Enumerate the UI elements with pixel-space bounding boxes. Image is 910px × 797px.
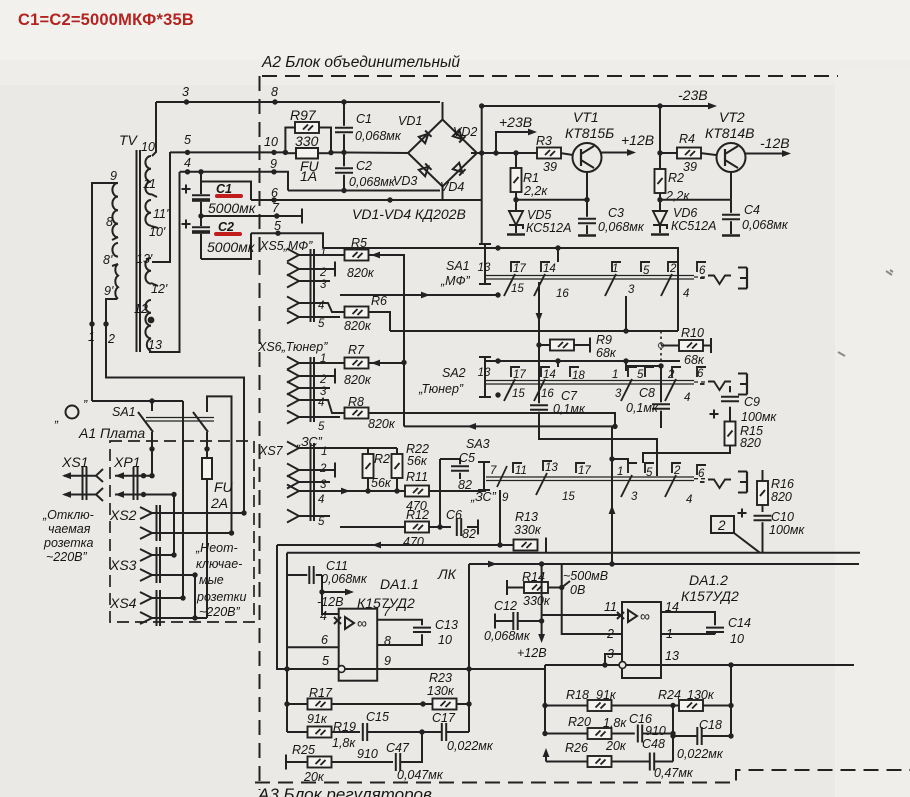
wire R8 output rail — [368, 413, 615, 426]
wire contact14 riser to top rail — [557, 248, 559, 262]
wire riser x195 — [194, 575, 196, 618]
svg-text:14: 14 — [543, 263, 556, 275]
contact 17 — [576, 463, 585, 473]
svg-text:17: 17 — [513, 369, 526, 381]
svg-text:-23В: -23В — [678, 87, 708, 103]
wire riser x174 from XP1 — [173, 495, 175, 556]
svg-text:ЛК: ЛК — [437, 566, 457, 582]
switch SA1 left pole bracket 13 — [479, 244, 498, 284]
node 4 — [185, 169, 190, 174]
svg-text:820к: 820к — [368, 417, 396, 431]
resistor R13 330k — [277, 544, 514, 546]
svg-text:39: 39 — [543, 160, 557, 174]
pin 1 — [287, 442, 299, 455]
svg-text:R4: R4 — [679, 132, 695, 146]
svg-text:100мк: 100мк — [769, 523, 805, 537]
svg-text:130к: 130к — [427, 684, 455, 698]
svg-text:0,068мк: 0,068мк — [484, 629, 531, 643]
pin 5 — [287, 311, 299, 324]
wire +23V branch — [496, 132, 532, 153]
svg-text:„ЗС”: „ЗС” — [470, 490, 497, 504]
svg-text:1: 1 — [612, 263, 618, 275]
svg-text:91к: 91к — [596, 688, 617, 702]
resistor R23 130k — [433, 699, 457, 710]
svg-text:13: 13 — [478, 262, 491, 274]
wire pin3 — [605, 654, 622, 665]
contact 13/15 — [536, 461, 552, 495]
resistor R97 330 — [285, 128, 409, 154]
jack socket row2 — [700, 374, 747, 395]
svg-text:VD1-VD4 КД202В: VD1-VD4 КД202В — [352, 206, 466, 222]
svg-text:20к: 20к — [605, 739, 627, 753]
contact 5 — [641, 262, 650, 272]
svg-text:ХР1: ХР1 — [113, 454, 140, 470]
contact 1/3 — [621, 463, 637, 497]
contact 14/16 — [534, 262, 550, 296]
svg-text:4: 4 — [318, 300, 324, 312]
svg-text:1А: 1А — [300, 168, 317, 184]
svg-text:R97: R97 — [290, 107, 317, 123]
svg-text:11: 11 — [143, 177, 156, 191]
svg-text:820: 820 — [740, 436, 761, 450]
pin 2 — [287, 370, 299, 383]
svg-text:4: 4 — [184, 156, 191, 170]
svg-text:0,068мк: 0,068мк — [355, 129, 402, 143]
primary winding section 9-8 — [112, 183, 118, 237]
contact 2/4 — [665, 367, 681, 401]
resistor R19 1.8k — [287, 731, 360, 733]
svg-text:16: 16 — [541, 388, 554, 400]
svg-text:18: 18 — [572, 370, 585, 382]
wire tap10 up to rail 3 — [152, 102, 156, 156]
resistor R16 820 — [762, 470, 764, 512]
wire riser x469 (LK to C17) — [468, 564, 470, 732]
transistor VT1 KT815B — [573, 143, 631, 200]
capacitor C6 82 — [457, 518, 461, 536]
primary winding section 8'-9' — [115, 264, 118, 299]
svg-text:С5: С5 — [459, 451, 475, 465]
pin 3 — [287, 476, 299, 489]
svg-text:39: 39 — [683, 160, 697, 174]
svg-text:17: 17 — [513, 263, 526, 275]
contact 17/15 — [504, 262, 520, 296]
svg-text:SA1: SA1 — [446, 259, 470, 273]
svg-text:розетки: розетки — [196, 590, 247, 604]
capacitor C8 0.1mk — [652, 404, 670, 408]
wire riser x185 — [182, 401, 184, 598]
wire contact3 riser down — [625, 296, 627, 331]
switch SA2 left pole bracket 13 — [479, 357, 498, 397]
contact 11 — [513, 463, 522, 473]
wire R15 down and left — [643, 446, 730, 464]
svg-text:SA3: SA3 — [466, 437, 490, 451]
resistor R21 56k — [367, 448, 369, 491]
svg-text:С1=С2=5000МКФ*35В: С1=С2=5000МКФ*35В — [18, 11, 194, 29]
svg-text:R1: R1 — [523, 171, 539, 185]
node 6 — [271, 197, 276, 202]
svg-text:13: 13 — [545, 462, 558, 474]
svg-text:„МФ”: „МФ” — [440, 274, 471, 288]
arrow -23V — [708, 103, 717, 110]
arrow +23V — [528, 129, 537, 136]
svg-text:ХS4: ХS4 — [109, 595, 137, 611]
wire SA1-SA2 riser with down arrow — [538, 282, 540, 345]
resistor R10 68k — [661, 345, 710, 347]
svg-text:А3 Блок регуляторов: А3 Блок регуляторов — [257, 785, 432, 797]
wire LK rail y564 — [469, 563, 859, 565]
capacitor C18 0.022mk — [673, 735, 731, 737]
wire pin6 — [287, 646, 339, 648]
arrow up on lk riser — [609, 505, 616, 514]
callout box 2 — [711, 516, 760, 553]
capacitor C11 0.068mk — [287, 575, 339, 614]
svg-text:100мк: 100мк — [741, 410, 777, 424]
svg-text:R26: R26 — [565, 741, 588, 755]
wire feedback top rail y553 — [287, 552, 860, 554]
transformer TV label — [119, 132, 139, 148]
svg-text:R16: R16 — [771, 477, 794, 491]
svg-text:5: 5 — [322, 654, 329, 668]
wire rail y172 (pin 4 / 9) — [180, 172, 289, 191]
svg-text:С47: С47 — [386, 741, 410, 755]
svg-text:С1: С1 — [216, 182, 232, 196]
wire riser x731 — [730, 665, 732, 736]
svg-text:К157УД2: К157УД2 — [681, 588, 739, 604]
transistor VT2 KT814V — [660, 143, 785, 200]
stray scan marks right edge — [838, 270, 893, 356]
arrow -12V — [322, 591, 348, 593]
svg-text:5: 5 — [274, 219, 281, 233]
svg-text:-12В: -12В — [317, 595, 343, 609]
svg-text:4: 4 — [684, 392, 690, 404]
contact lever 7-9 — [497, 466, 507, 487]
svg-text:330: 330 — [295, 133, 319, 149]
svg-text:820к: 820к — [344, 319, 372, 333]
contact 1/3 — [605, 262, 621, 296]
wire SA1 input with arrow — [340, 294, 498, 296]
svg-text:„Тюнер”: „Тюнер” — [418, 382, 464, 396]
svg-text:4: 4 — [683, 288, 689, 300]
svg-text:мые: мые — [199, 573, 224, 587]
svg-text:56к: 56к — [407, 454, 428, 468]
wire rail y102 (pin 3 / 8) — [156, 101, 440, 103]
svg-text:0,1мк: 0,1мк — [626, 401, 659, 415]
wire 9 riser to R13 rail — [499, 490, 501, 545]
wire SA2 top rail — [498, 360, 680, 362]
capacitor C10 100mk — [738, 509, 747, 518]
svg-text:С4: С4 — [744, 203, 760, 217]
svg-text:11: 11 — [515, 465, 527, 477]
svg-text:7: 7 — [383, 605, 391, 619]
svg-text:ключае-: ключае- — [196, 557, 242, 571]
power indicator lamp — [66, 406, 79, 419]
svg-text:R18: R18 — [566, 688, 589, 702]
svg-text:68к: 68к — [684, 353, 705, 367]
svg-text:15: 15 — [511, 283, 524, 295]
svg-text:17: 17 — [578, 465, 591, 477]
capacitor C12 0.068mk — [494, 614, 496, 629]
capacitor C17 0.022mk — [442, 723, 446, 741]
resistor R9 68k — [539, 344, 589, 346]
svg-text:С11: С11 — [326, 559, 348, 573]
svg-text:С48: С48 — [642, 737, 665, 751]
svg-text:С8: С8 — [639, 386, 655, 400]
pin 5 — [287, 411, 299, 424]
svg-text:чаемая: чаемая — [48, 522, 91, 536]
svg-text:R20: R20 — [568, 715, 591, 729]
resistor R1 2.2k — [515, 153, 517, 200]
svg-text:2А: 2А — [210, 495, 228, 511]
winding tap stubs primary — [112, 237, 118, 240]
pin 1 — [287, 357, 299, 370]
contact 1/3 — [621, 367, 637, 401]
svg-text:∞: ∞ — [640, 608, 650, 624]
winding tap stubs secondary — [151, 194, 157, 197]
svg-text:„ЗС”: „ЗС” — [296, 435, 323, 449]
svg-text:3: 3 — [615, 388, 622, 400]
svg-text:R23: R23 — [429, 671, 452, 685]
svg-text:6: 6 — [698, 468, 705, 480]
svg-text:DA1.1: DA1.1 — [380, 576, 419, 592]
svg-text:+12В: +12В — [517, 646, 547, 660]
svg-text:0,068мк: 0,068мк — [598, 220, 645, 234]
pin 3 — [287, 275, 299, 288]
pin 5 — [287, 510, 299, 523]
svg-text:С2: С2 — [356, 159, 372, 173]
svg-text:11': 11' — [153, 207, 169, 221]
fuse FU 1A — [285, 148, 331, 159]
svg-text:С3: С3 — [608, 206, 624, 220]
contact 2/4 — [665, 463, 681, 497]
primary winding section 8-8' — [112, 243, 118, 257]
secondary winding section 10-11 — [145, 156, 151, 194]
svg-text:ХS2: ХS2 — [109, 507, 137, 523]
wire rail y200 (pin 6 to -23V riser) — [251, 199, 482, 201]
resistor R25 20k — [285, 755, 287, 770]
node 8 — [272, 99, 277, 104]
svg-text:С2: С2 — [218, 220, 234, 234]
svg-text:5: 5 — [318, 516, 325, 528]
svg-text:82: 82 — [462, 527, 476, 541]
wire mains from winding to SA1 — [92, 400, 183, 402]
resistor R18 91k — [545, 705, 680, 707]
svg-text:12': 12' — [151, 282, 168, 296]
contact 5 — [645, 367, 654, 377]
svg-text:3: 3 — [631, 491, 638, 503]
svg-text:С18: С18 — [699, 718, 722, 732]
resistor R11 470 — [405, 486, 429, 497]
fuse FU 2A — [202, 458, 212, 618]
svg-text:„Отклю-: „Отклю- — [42, 508, 94, 522]
svg-text:SA2: SA2 — [442, 366, 466, 380]
op-amp DA1.2 body — [617, 602, 661, 678]
svg-text:КТ814В: КТ814В — [705, 125, 755, 141]
wire tap9' to terminal 2 — [106, 299, 244, 513]
wire pin2 — [562, 588, 622, 635]
svg-text:12: 12 — [134, 302, 148, 316]
svg-text:10: 10 — [264, 135, 278, 149]
zener VD5 KS512A — [515, 200, 517, 233]
arrow +12V out — [627, 149, 636, 156]
capacitor C9 100mk — [729, 386, 731, 422]
svg-text:6: 6 — [699, 265, 706, 277]
svg-text:11: 11 — [604, 600, 617, 614]
jack socket row3 — [700, 472, 747, 493]
capacitor C1 5000mk — [192, 172, 251, 216]
svg-text:R24: R24 — [658, 688, 681, 702]
switch SA2 mechanism bars — [486, 381, 707, 385]
capacitor C5 82 — [440, 459, 460, 527]
svg-text:8': 8' — [103, 253, 113, 267]
svg-text:0,068мк: 0,068мк — [349, 175, 396, 189]
wire tap9 to terminal 1 — [92, 183, 118, 401]
svg-text:розетка: розетка — [43, 536, 94, 550]
transformer core — [136, 150, 138, 352]
svg-text:2,2к: 2,2к — [665, 189, 690, 203]
svg-text:13': 13' — [136, 252, 153, 266]
svg-text:С15: С15 — [366, 710, 389, 724]
node 10 — [271, 150, 276, 155]
node terminal 2 — [103, 321, 108, 326]
svg-text:56к: 56к — [371, 476, 392, 490]
secondary winding section 13'-12' — [145, 258, 151, 284]
svg-text:TV: TV — [119, 132, 139, 148]
svg-text:С17: С17 — [432, 711, 456, 725]
svg-text:6: 6 — [321, 633, 328, 647]
svg-text:4: 4 — [686, 494, 692, 506]
svg-text:VD1: VD1 — [398, 114, 422, 128]
op-amp DA1.1 body — [334, 609, 377, 681]
svg-text:1: 1 — [612, 369, 618, 381]
svg-text:С10: С10 — [771, 510, 794, 524]
wire VT2 branch riser — [659, 106, 661, 200]
svg-text:820: 820 — [771, 490, 792, 504]
zener VD6 KS512A — [659, 200, 661, 233]
svg-text:0,022мк: 0,022мк — [447, 739, 494, 753]
wire riser x661 to C8 — [626, 366, 661, 402]
wire contact1 riser — [625, 361, 627, 371]
svg-text:3: 3 — [182, 85, 189, 99]
svg-text:470: 470 — [403, 535, 424, 549]
contact 2/4 — [661, 262, 677, 296]
wire pin5 rail y669 — [277, 668, 545, 670]
svg-text:R6: R6 — [371, 294, 387, 308]
wire rail y190 (bridge bottom left) — [288, 190, 440, 192]
svg-text:С12: С12 — [494, 599, 517, 613]
svg-text:R19: R19 — [333, 720, 356, 734]
wire riser x673 — [672, 706, 674, 762]
svg-text:ХS7: ХS7 — [258, 444, 284, 458]
wire SA3 node to lk riser — [612, 459, 628, 463]
svg-text:0,047мк: 0,047мк — [397, 768, 444, 782]
svg-text:20к: 20к — [303, 770, 325, 784]
wire contact14 riser — [557, 361, 559, 367]
svg-text:15: 15 — [512, 388, 525, 400]
svg-text:9: 9 — [502, 492, 509, 504]
svg-text:R3: R3 — [536, 134, 552, 148]
svg-text:820к: 820к — [344, 373, 372, 387]
svg-text:10: 10 — [438, 633, 452, 647]
svg-text:С1: С1 — [356, 112, 372, 126]
svg-text:68к: 68к — [596, 346, 617, 360]
svg-text:5: 5 — [646, 467, 653, 479]
svg-text:А1 Плата: А1 Плата — [78, 425, 145, 441]
svg-text:330к: 330к — [523, 594, 551, 608]
svg-text:VD6: VD6 — [673, 206, 697, 220]
wire tap13 to x179 riser — [149, 172, 180, 352]
switch SA3 mechanism bars — [486, 477, 707, 481]
resistor R24 130k — [679, 700, 703, 711]
svg-text:9: 9 — [270, 157, 277, 171]
secondary winding section 11' — [145, 200, 151, 226]
svg-text:13: 13 — [148, 338, 162, 352]
svg-text:VT2: VT2 — [719, 109, 745, 125]
svg-text:VD2: VD2 — [453, 125, 477, 139]
capacitor C3 0.068mk — [586, 200, 588, 234]
svg-text:10': 10' — [149, 225, 166, 239]
svg-text:R8: R8 — [348, 395, 364, 409]
wire lower return rail with left arrow — [404, 426, 612, 564]
contact 18 — [570, 367, 579, 377]
svg-text:15: 15 — [562, 491, 575, 503]
svg-text:2: 2 — [667, 369, 675, 381]
svg-text:+23В: +23В — [499, 114, 532, 130]
wire R3 to VT1 base — [560, 153, 573, 155]
svg-text:„Неот-: „Неот- — [195, 541, 238, 555]
svg-text:2: 2 — [107, 332, 115, 346]
svg-text:R2: R2 — [668, 171, 684, 185]
svg-text:4: 4 — [318, 397, 324, 409]
pin 4 (signal with arrow) — [287, 485, 299, 498]
wire riser x277 pin5 loop — [277, 545, 338, 669]
pin 2 — [287, 263, 299, 276]
A2 block dashed border top — [262, 75, 838, 77]
svg-text:2: 2 — [673, 465, 681, 477]
contact 6 — [697, 367, 706, 377]
svg-text:ХS3: ХS3 — [109, 557, 137, 573]
svg-text:5: 5 — [637, 369, 644, 381]
pin 4 — [287, 297, 299, 310]
svg-text:1: 1 — [88, 330, 95, 344]
wire mid bus y331 — [390, 330, 678, 332]
svg-text:0,068мк: 0,068мк — [742, 218, 789, 232]
svg-text:820к: 820к — [347, 266, 375, 280]
diode VD4 — [453, 163, 466, 176]
svg-text:DA1.2: DA1.2 — [689, 572, 728, 588]
resistor R3 39 — [537, 148, 561, 159]
resistor R8 820k — [345, 408, 369, 419]
node 3 — [184, 99, 189, 104]
svg-text:5: 5 — [643, 265, 650, 277]
svg-text:16: 16 — [556, 288, 569, 300]
svg-text:С9: С9 — [744, 395, 760, 409]
svg-text:R7: R7 — [348, 343, 365, 357]
wire riser x539 through SA2 to C7 — [538, 345, 540, 403]
wire bridge to R3 — [471, 152, 538, 154]
svg-text:VD5: VD5 — [527, 208, 551, 222]
svg-text:VT1: VT1 — [573, 109, 599, 125]
svg-text:КС512А: КС512А — [671, 219, 716, 233]
capacitor C47 0.047mk — [396, 753, 400, 771]
pin 3 — [287, 382, 299, 395]
svg-text:∞: ∞ — [357, 615, 367, 631]
svg-text:С13: С13 — [435, 618, 458, 632]
wire riser R14 node to LK rail — [562, 564, 570, 588]
svg-text:~220В”: ~220В” — [46, 550, 87, 564]
diode VD3 — [419, 163, 432, 176]
resistor R4 39 — [660, 153, 716, 155]
svg-text:10: 10 — [730, 632, 744, 646]
